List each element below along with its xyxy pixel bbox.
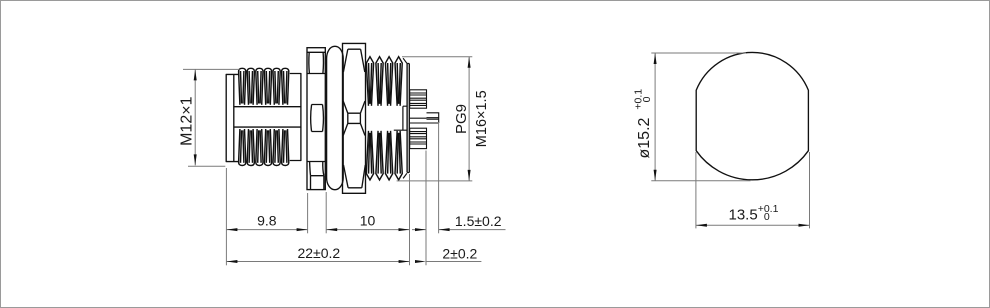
extension lines for M12x1 diameter [183,69,240,166]
svg-text:13.5+0.10: 13.5+0.10 [729,203,779,224]
hex body [343,43,366,193]
extension line at pin tip [438,122,440,233]
svg-text:9.8: 9.8 [257,212,277,228]
dimension line PG9 / M16x1.5 [468,57,470,181]
svg-text:22±0.2: 22±0.2 [297,245,340,261]
gasket flange [327,46,344,189]
M12 thread, lower band [239,129,289,166]
extension line at hex nut face [307,193,309,233]
M16/PG9 thread, upper band [366,57,402,106]
dimension line M12x1 [194,69,196,165]
extension line at thread end [409,174,411,265]
extension lines for diameter 15.2 [651,53,750,181]
dimension lines 22 / 2 [226,261,481,263]
serrated contact carrier, upper [410,90,427,108]
svg-text:1.5±0.2: 1.5±0.2 [455,213,502,229]
M16 thread runout lines [394,58,407,178]
body outline, circle with wrench flats [696,52,808,179]
dimension line diameter 15.2 [654,53,656,181]
arrowheads, left view dimensions [194,57,471,263]
svg-text:M12×1: M12×1 [178,96,195,145]
svg-text:M16×1.5: M16×1.5 [474,90,490,147]
extension lines for width 13.5 [696,152,810,228]
extension lines for PG9 / M16x1.5 diameter [397,57,473,181]
M16/PG9 thread, lower band [366,131,402,180]
extension line at front face [225,168,227,265]
M12 thread, upper band [239,68,289,105]
M12 thread root lines [235,107,301,127]
front coupling face ring [226,74,238,161]
dimension lines 9.8 / 10 / 1.5 [226,229,505,231]
dimension line width 13.5 [696,224,810,226]
svg-text:PG9: PG9 [453,104,470,134]
svg-text:ø15.2+0.10: ø15.2+0.10 [633,89,654,159]
svg-text:2±0.2: 2±0.2 [442,245,477,261]
extension line at gasket flange [325,192,327,233]
serrated contact carrier, lower [410,128,427,148]
solder pin [410,113,439,123]
arrowheads, right view dimensions [654,53,810,227]
M12 thread section end cap [290,74,301,161]
svg-text:10: 10 [360,212,376,228]
extension line at carrier end [425,151,427,266]
hex nut [307,48,325,190]
M16 thread end cap [407,64,409,173]
